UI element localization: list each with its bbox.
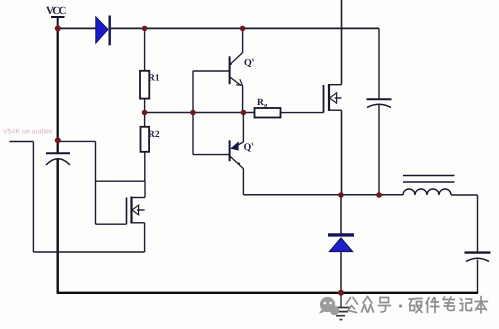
wire R1 bottom lead <box>144 99 146 113</box>
wire VCC vertical (left rail) <box>57 28 59 153</box>
wire Q4 source vertical <box>144 223 146 252</box>
power bar VCC <box>51 16 65 18</box>
wire top rail left <box>58 27 96 29</box>
wire inductor right lead <box>451 194 478 196</box>
wire gate feed vertical <box>95 141 97 224</box>
separator dot <box>399 304 402 307</box>
wire source return horizontal <box>33 251 144 253</box>
wire Q2 base lead <box>193 154 230 156</box>
char 件 <box>426 298 439 313</box>
char 号 <box>379 298 391 313</box>
resistor R (gate) <box>255 108 281 118</box>
node source/diode <box>338 192 344 198</box>
wire bases vertical <box>192 71 194 155</box>
wire R2 top lead <box>144 113 146 127</box>
wire Q1 emitter vertical <box>242 86 244 113</box>
char 本 <box>475 297 488 314</box>
wire rail corner down to C2 <box>378 28 380 99</box>
char 公 <box>346 298 358 313</box>
node ground <box>338 290 344 296</box>
wire R1 top lead <box>144 28 146 70</box>
capacitor C2 <box>367 99 392 195</box>
mosfet Q4 (small MOSFET) <box>127 197 146 225</box>
wire bottom rail (ground rail) <box>57 292 478 294</box>
svg-text:V54K ue auditie: V54K ue auditie <box>3 128 53 136</box>
wire R2 bottom lead <box>144 152 146 181</box>
inductor L1 coil <box>403 189 451 195</box>
wire top rail right <box>111 27 379 29</box>
watermark text 公众号·硬件笔记本 (drawn strokes) <box>346 297 488 314</box>
char 笔 <box>443 297 455 311</box>
node VCC branch <box>55 137 61 143</box>
mosfet Q3 (power MOSFET) <box>324 84 342 113</box>
char 硬 <box>409 299 422 313</box>
capacitor C1 <box>46 153 70 165</box>
svg-text:VCC: VCC <box>46 5 67 17</box>
wire mid rail (bases/emitters node row) <box>145 112 255 114</box>
diode D2 (freewheel) <box>328 195 354 293</box>
wire mid output rail <box>243 194 403 196</box>
watermark WeChat icon <box>319 297 339 315</box>
svg-text:Q: Q <box>244 57 252 68</box>
wire Q3 source vertical <box>341 110 343 195</box>
node C2 bottom <box>376 192 382 198</box>
resistor R2 <box>141 127 150 152</box>
ground symbol <box>330 293 352 320</box>
wire left stub <box>10 141 34 143</box>
transistor Q2 (PNP) <box>230 140 244 168</box>
wire left vertical <box>32 142 34 253</box>
wire Q3 drain vertical <box>341 0 343 85</box>
node Q1 collector <box>240 26 246 32</box>
wire branch VCC to gate feed <box>58 140 96 142</box>
wire right corner down <box>477 195 479 252</box>
node bases <box>190 110 196 116</box>
svg-text:g: g <box>264 102 268 110</box>
wire R right lead to gate <box>281 112 324 114</box>
node VCC/top-rail <box>55 25 61 31</box>
wire VCC vertical below C1 <box>57 159 59 293</box>
wire gate feed to Q4 gate <box>96 223 127 225</box>
capacitor C3 <box>465 253 491 293</box>
wire Q4 drain vertical <box>144 181 146 197</box>
wire Q2 collector vertical <box>242 168 244 194</box>
svg-text:R2: R2 <box>148 130 160 140</box>
wire Q1 base lead <box>193 70 230 72</box>
char 记 <box>460 299 472 311</box>
node emitters <box>241 110 247 116</box>
inductor L1 core <box>403 176 455 183</box>
svg-text:R: R <box>257 98 264 108</box>
svg-text:R1: R1 <box>148 74 160 84</box>
svg-text:Q: Q <box>244 142 252 153</box>
node R1/R2 <box>142 110 148 116</box>
wire Q1 collector vertical <box>242 28 244 52</box>
wire drain box horizontal <box>96 180 146 182</box>
resistor R1 <box>140 71 149 99</box>
transistor Q1 (NPN) <box>230 53 243 86</box>
wire Q2 emitter vertical <box>242 113 244 143</box>
node R1 top <box>142 26 148 32</box>
diode D1 <box>96 16 110 46</box>
wire VCC stub <box>57 17 59 28</box>
char 众 <box>362 297 374 313</box>
